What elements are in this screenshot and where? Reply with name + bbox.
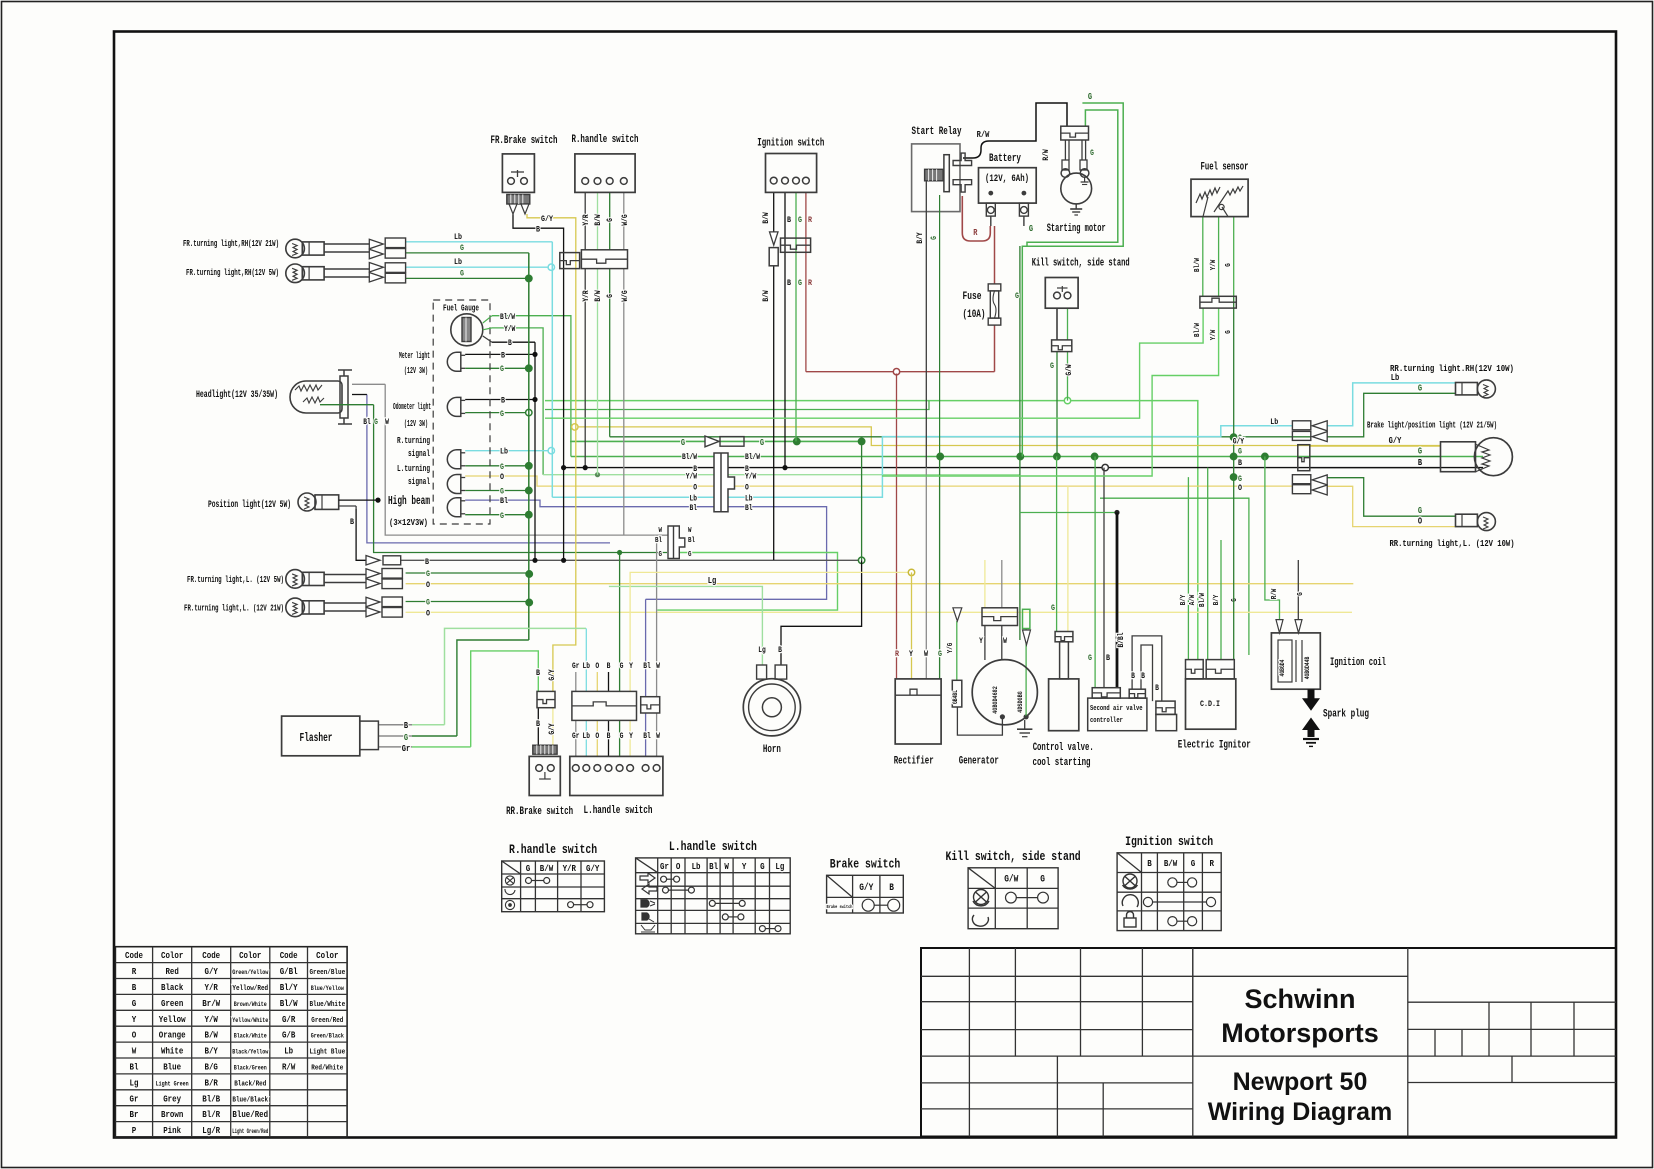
svg-text:signal: signal (408, 449, 430, 459)
wire B odometer light (465, 399, 535, 401)
svg-text:RR.turning light,L. (12V 10W): RR.turning light,L. (12V 10W) (1390, 538, 1515, 549)
wire G vertical cluster (528, 253, 530, 640)
svg-text:FR.turning light,RH(12V 5W): FR.turning light,RH(12V 5W) (186, 267, 279, 278)
svg-text:W/G: W/G (621, 290, 630, 301)
svg-text:Lb: Lb (1270, 417, 1278, 427)
svg-text:G: G (426, 569, 430, 579)
wire W rectifier (925, 468, 927, 679)
svg-text:R.handle switch: R.handle switch (572, 134, 639, 146)
wire R fuse to ignition switch (806, 371, 995, 373)
svg-text:C.D.I: C.D.I (1200, 699, 1220, 709)
svg-text:G: G (526, 863, 531, 874)
svg-text:Second air valve: Second air valve (1090, 705, 1143, 713)
svg-text:Green/Red: Green/Red (311, 1017, 343, 1025)
svg-text:4GBGD44B: 4GBGD44B (1304, 656, 1311, 679)
Kill switch side stand contact table (968, 868, 1058, 929)
svg-text:G: G (1231, 598, 1239, 602)
wire G control valve (1056, 457, 1058, 632)
svg-text:G: G (1297, 592, 1305, 596)
wire G/Y upper run (576, 427, 1441, 446)
svg-text:(10A): (10A) (963, 309, 986, 321)
wire G brake light (1310, 456, 1441, 458)
wire G mid run (545, 401, 929, 410)
wire Lb front turn RH5 (406, 266, 549, 268)
wire B fuel gauge (492, 341, 535, 343)
svg-text:Br: Br (130, 1109, 139, 1120)
meter cluster box (433, 300, 490, 524)
svg-text:G: G (1225, 330, 1233, 334)
svg-text:Bl: Bl (130, 1061, 139, 1072)
svg-text:Pink: Pink (163, 1125, 181, 1136)
wire B meter light (465, 353, 535, 355)
svg-text:G: G (1050, 361, 1054, 371)
svg-text:B/Y: B/Y (1180, 594, 1188, 605)
svg-text:FR.turning light,L. (12V 5W): FR.turning light,L. (12V 5W) (187, 574, 284, 585)
svg-text:G: G (606, 294, 615, 298)
svg-text:Lg: Lg (130, 1077, 139, 1088)
svg-text:FR.turning light,RH(12V 21W): FR.turning light,RH(12V 21W) (183, 238, 279, 249)
svg-text:Y/R: Y/R (205, 982, 219, 993)
svg-text:Yellow/White: Yellow/White (232, 1017, 268, 1024)
wire generator leads (956, 621, 958, 680)
svg-text:High beam: High beam (388, 494, 430, 508)
svg-text:B/Y: B/Y (205, 1046, 219, 1057)
svg-text:G: G (1088, 92, 1092, 102)
ground starting motor brush (1084, 177, 1086, 182)
svg-text:Bl: Bl (363, 418, 371, 427)
svg-text:Bl/Y: Bl/Y (280, 982, 298, 993)
svg-text:Bl: Bl (709, 861, 718, 872)
svg-text:Meter light: Meter light (399, 351, 430, 361)
svg-text:R: R (808, 278, 813, 288)
svg-text:G: G (659, 551, 663, 559)
svg-text:Blue: Blue (163, 1061, 181, 1072)
svg-text:B: B (350, 517, 354, 527)
connector rear L (1292, 475, 1310, 484)
wire Lb l-handle (585, 628, 587, 691)
wire G front turn RH5 (406, 277, 526, 279)
wire G to rear turn RH (610, 436, 1312, 438)
svg-text:G: G (460, 269, 464, 279)
svg-text:Color: Color (316, 950, 339, 961)
svg-text:O: O (676, 861, 681, 872)
svg-text:G: G (404, 733, 408, 743)
svg-text:(3×12V3W): (3×12V3W) (389, 518, 428, 528)
wire G meter light (465, 367, 526, 369)
svg-text:Kill switch, side stand: Kill switch, side stand (946, 850, 1081, 864)
svg-text:Blue/Yellow: Blue/Yellow (311, 985, 344, 992)
svg-text:Black/White: Black/White (234, 1033, 267, 1040)
wire G/Y r-handle 4 (623, 192, 625, 249)
svg-text:G: G (681, 438, 685, 448)
svg-text:Bl/R: Bl/R (202, 1109, 220, 1120)
svg-text:G: G (688, 551, 692, 559)
svg-text:G/W: G/W (1004, 874, 1018, 886)
svg-text:G: G (1051, 603, 1055, 613)
svg-text:G: G (1238, 447, 1242, 457)
svg-text:B: B (425, 557, 429, 567)
svg-text:B: B (1141, 672, 1145, 681)
wire G riser to B node (861, 441, 863, 560)
wire G/W kill switch (1067, 308, 1069, 340)
wire G with diode (570, 440, 860, 442)
svg-text:B: B (536, 668, 540, 678)
svg-text:G: G (620, 732, 624, 741)
wire G front turn L21 (406, 601, 530, 603)
wire CDI leads (1187, 477, 1189, 659)
svg-text:O: O (693, 484, 697, 493)
svg-text:B: B (778, 646, 782, 655)
svg-text:Lb: Lb (500, 447, 508, 457)
svg-text:B: B (404, 721, 409, 731)
wire R ignition (805, 192, 807, 371)
wire B/W ignition (773, 192, 775, 232)
svg-text:Y/W: Y/W (745, 473, 756, 482)
svg-text:Ignition switch: Ignition switch (1125, 835, 1213, 849)
svg-text:Green/Blue: Green/Blue (309, 969, 345, 977)
svg-text:A/W: A/W (1189, 594, 1197, 605)
wire G rectifier (939, 457, 941, 679)
svg-text:Lg: Lg (775, 861, 784, 872)
svg-text:controller: controller (1090, 717, 1123, 725)
svg-text:G: G (930, 236, 939, 240)
svg-text:B/W: B/W (594, 290, 603, 301)
svg-text:G: G (1029, 224, 1033, 234)
svg-text:Rectifier: Rectifier (894, 756, 934, 768)
svg-text:Lg: Lg (758, 646, 766, 655)
svg-text:Y/W: Y/W (504, 325, 515, 334)
svg-text:G/Y: G/Y (548, 669, 557, 680)
svg-text:Gr: Gr (660, 861, 669, 872)
wire G rear lights vertical (1233, 296, 1235, 659)
svg-text:Gr: Gr (402, 744, 411, 754)
svg-text:Fuel sensor: Fuel sensor (1201, 161, 1249, 173)
svg-text:Bl/W: Bl/W (1199, 593, 1207, 607)
wire G r-handle 3 (609, 192, 611, 249)
svg-text:RR.turning light.RH(12V 10W): RR.turning light.RH(12V 10W) (1390, 363, 1514, 374)
svg-text:Yellow: Yellow (159, 1014, 186, 1025)
svg-text:Color: Color (161, 950, 184, 961)
wire Bl/W fuel gauge (492, 316, 571, 457)
svg-text:(12V 3W): (12V 3W) (404, 419, 428, 429)
svg-text:G: G (606, 218, 615, 222)
svg-text:R/W: R/W (977, 130, 990, 140)
L.handle switch contact table (636, 858, 791, 934)
fuel gauge (451, 314, 483, 346)
svg-text:Code: Code (202, 950, 220, 961)
svg-text:W: W (659, 527, 663, 535)
svg-text:Y: Y (629, 732, 633, 741)
svg-text:Motorsports: Motorsports (1221, 1018, 1379, 1048)
svg-text:G: G (1225, 263, 1233, 267)
svg-text:Brake switch: Brake switch (827, 904, 853, 910)
connector FR brake / R handle (560, 253, 580, 269)
svg-text:B: B (607, 662, 611, 671)
wire B main black bus (564, 467, 1483, 469)
wire G l-handle (619, 553, 621, 692)
svg-text:B/Y: B/Y (1213, 594, 1221, 605)
svg-text:Position light(12V 5W): Position light(12V 5W) (208, 499, 291, 511)
wire G starting motor loop (1027, 110, 1118, 247)
svg-text:B/Bl: B/Bl (1117, 632, 1126, 647)
svg-text:Black/Yellow: Black/Yellow (232, 1049, 268, 1056)
svg-text:(12V 3W): (12V 3W) (404, 366, 428, 376)
wire O rear L (1327, 486, 1455, 526)
svg-text:Light Green/Red: Light Green/Red (232, 1128, 268, 1135)
svg-text:Code: Code (125, 950, 143, 961)
svg-text:Y/R: Y/R (582, 214, 591, 225)
svg-text:Lb: Lb (583, 732, 591, 741)
svg-text:R: R (808, 215, 813, 225)
svg-text:B/W: B/W (594, 214, 603, 225)
svg-text:Lb: Lb (692, 861, 701, 872)
svg-text:G: G (500, 409, 504, 419)
wire B fuel gauge vertical (534, 342, 536, 560)
svg-text:Y/R: Y/R (563, 863, 577, 874)
svg-text:R.turning: R.turning (397, 436, 430, 446)
svg-text:R: R (895, 649, 900, 659)
wire Bl high beam run (465, 500, 826, 599)
svg-text:B: B (889, 883, 894, 894)
svg-text:W: W (385, 418, 389, 427)
wire B/Bl second air valve thick (1020, 512, 1117, 514)
svg-text:G: G (500, 487, 504, 497)
wire B/W r-handle 2 (597, 192, 599, 249)
wire Lb vertical (551, 242, 553, 497)
wire G rear vertical 2 (1265, 457, 1280, 620)
svg-text:Newport 50: Newport 50 (1233, 1068, 1368, 1096)
svg-text:Blue/Black: Blue/Black (232, 1096, 268, 1104)
svg-text:Gr: Gr (130, 1093, 139, 1104)
svg-text:Bl/W: Bl/W (682, 453, 697, 462)
svg-text:4GBGD4: 4GBGD4 (1279, 659, 1286, 676)
svg-text:Yellow/Red: Yellow/Red (232, 985, 268, 993)
svg-text:FR.Brake switch: FR.Brake switch (491, 135, 558, 147)
wire O long orange bus (465, 476, 1292, 486)
wire Lb rear RH (1327, 383, 1455, 426)
wire G ignition (795, 192, 797, 441)
svg-text:Y: Y (132, 1014, 137, 1025)
wire W headlight run (385, 384, 667, 535)
svg-text:Y: Y (979, 637, 983, 646)
svg-text:B/Y: B/Y (916, 232, 925, 243)
svg-text:Gr: Gr (572, 662, 580, 671)
svg-text:Lb: Lb (745, 495, 753, 504)
svg-text:Bl/B: Bl/B (202, 1093, 220, 1104)
svg-text:G: G (620, 662, 624, 671)
svg-text:B: B (787, 278, 791, 288)
svg-text:G: G (460, 243, 464, 253)
svg-text:(12V, 6Ah): (12V, 6Ah) (985, 173, 1029, 185)
svg-text:P: P (132, 1125, 137, 1136)
wire colour code table (115, 947, 347, 1137)
svg-text:G: G (1090, 149, 1094, 158)
svg-text:Code: Code (280, 950, 298, 961)
wire G headlight run (374, 405, 667, 553)
svg-text:B: B (501, 351, 505, 361)
wire G odometer light (465, 412, 526, 414)
wire G main bright bus (545, 401, 1198, 660)
svg-text:Brown/White: Brown/White (234, 1001, 267, 1008)
svg-text:Gr: Gr (572, 732, 580, 741)
wire Y rectifier (630, 572, 911, 645)
svg-text:O: O (132, 1030, 137, 1041)
svg-text:Brake light/position light (12: Brake light/position light (12V 21/5W) (1367, 420, 1497, 431)
wire Bl headlight run (367, 395, 610, 543)
wire G L turning signal (465, 465, 526, 467)
connector headlamp harness (668, 526, 685, 559)
wire R/W start relay (963, 103, 1067, 158)
svg-text:4GBGD4682: 4GBGD4682 (992, 686, 999, 714)
svg-text:Y: Y (629, 662, 633, 671)
wire B l-handle (608, 672, 610, 691)
connector position light (366, 556, 380, 566)
svg-text:G: G (374, 418, 378, 427)
wire Lb meter R turning (465, 450, 549, 452)
wire G kill switch (1056, 308, 1058, 340)
svg-text:B/W: B/W (762, 290, 771, 301)
wire B ignition (784, 192, 786, 467)
svg-text:O: O (1418, 517, 1423, 527)
svg-text:O: O (595, 732, 599, 741)
svg-text:B: B (1147, 858, 1152, 869)
svg-text:Grey: Grey (163, 1093, 181, 1104)
svg-text:B: B (501, 396, 505, 406)
wire G/Y FR brake vertical (527, 214, 576, 691)
svg-text:Bl: Bl (500, 496, 508, 506)
svg-text:G/B: G/B (282, 1030, 296, 1041)
svg-text:Red: Red (165, 966, 179, 977)
svg-text:Bl: Bl (643, 662, 651, 671)
svg-text:Y: Y (742, 861, 747, 872)
svg-text:Y/W: Y/W (686, 473, 697, 482)
svg-text:B/G: B/G (205, 1061, 219, 1072)
svg-text:G: G (1015, 291, 1019, 301)
svg-text:L.handle switch: L.handle switch (584, 805, 653, 817)
svg-text:RR.Brake switch: RR.Brake switch (506, 806, 573, 818)
wire G second air valve (1094, 457, 1096, 688)
svg-text:B: B (508, 339, 512, 348)
svg-text:G: G (760, 861, 765, 872)
connector ignition switch (770, 232, 779, 245)
svg-text:Kill switch, side stand: Kill switch, side stand (1032, 258, 1130, 270)
svg-text:Br/W: Br/W (202, 998, 220, 1009)
wire Lb long light blue (552, 426, 1292, 497)
svg-text:Generator: Generator (959, 756, 999, 768)
ground generator (1024, 720, 1026, 729)
wire Lg flasher B (378, 724, 412, 726)
svg-text:O: O (595, 662, 599, 671)
svg-text:Bl/W: Bl/W (1194, 323, 1202, 337)
svg-text:G: G (1418, 447, 1422, 457)
svg-text:G: G (1191, 858, 1196, 869)
svg-text:B: B (1238, 458, 1242, 468)
svg-text:Light Green: Light Green (156, 1080, 189, 1087)
svg-text:Ignition coil: Ignition coil (1330, 657, 1386, 669)
wire Y control valve (1067, 486, 1069, 631)
svg-text:W: W (656, 662, 660, 671)
svg-text:W: W (1003, 637, 1007, 646)
svg-text:G/Bl: G/Bl (280, 966, 298, 977)
svg-text:B/R: B/R (205, 1077, 219, 1088)
wire RR brake B (537, 708, 539, 746)
svg-text:B/W: B/W (762, 212, 771, 223)
svg-text:White: White (161, 1046, 184, 1057)
svg-text:B: B (536, 719, 540, 729)
svg-text:Wiring Diagram: Wiring Diagram (1208, 1098, 1393, 1126)
svg-text:G/Y: G/Y (1233, 438, 1244, 447)
wire G flasher (378, 735, 412, 737)
svg-text:R: R (1210, 858, 1215, 869)
wire G L turning signal 2 (465, 490, 526, 492)
svg-text:W: W (132, 1046, 137, 1057)
svg-text:Starting motor: Starting motor (1047, 223, 1106, 235)
svg-text:L.turning: L.turning (397, 464, 430, 474)
svg-text:Red/White: Red/White (311, 1064, 343, 1072)
wire fuel sensor drops (1202, 217, 1204, 297)
svg-text:Blue/White: Blue/White (309, 1001, 345, 1009)
svg-text:Odometer light: Odometer light (393, 402, 431, 412)
svg-text:O: O (1238, 483, 1242, 493)
svg-text:B: B (132, 982, 137, 993)
svg-text:R.handle switch: R.handle switch (509, 843, 597, 857)
svg-text:G: G (1418, 506, 1422, 516)
svg-text:G/R: G/R (282, 1014, 296, 1025)
svg-text:4DSDGBG: 4DSDGBG (1017, 691, 1024, 712)
svg-text:R: R (132, 966, 137, 977)
wire W l-handle (656, 535, 658, 697)
svg-text:G: G (798, 215, 802, 225)
svg-text:Battery: Battery (989, 153, 1021, 165)
svg-text:B: B (1155, 684, 1159, 693)
svg-text:Flasher: Flasher (300, 731, 333, 745)
svg-text:Ignition switch: Ignition switch (757, 138, 824, 150)
title block grid (921, 948, 1616, 1137)
wire Lb front turn RH21 to junction (406, 241, 553, 243)
svg-text:G/W: G/W (1065, 364, 1074, 375)
svg-text:Bl/W: Bl/W (745, 453, 760, 462)
ground spark plug (1303, 738, 1319, 740)
wire R battery to fuse (994, 226, 996, 284)
wire B brake light (1310, 467, 1441, 469)
connector rear RH (1292, 421, 1310, 430)
svg-text:O: O (426, 580, 430, 590)
svg-text:G: G (132, 998, 137, 1009)
svg-text:Green: Green (161, 998, 184, 1009)
svg-text:W: W (924, 649, 929, 659)
wire G vertical fuse side (1019, 246, 1021, 640)
wire ignition coil leads (1297, 560, 1299, 620)
svg-text:Lg: Lg (708, 576, 717, 586)
svg-text:Y/R: Y/R (582, 290, 591, 301)
svg-text:G: G (500, 462, 504, 472)
wire B FR brake vertical (513, 214, 564, 468)
svg-text:Orange: Orange (159, 1030, 186, 1041)
svg-text:G/Y: G/Y (548, 723, 557, 734)
flasher (282, 716, 360, 756)
svg-text:Bl: Bl (745, 504, 753, 513)
svg-text:signal: signal (408, 477, 430, 487)
svg-text:R/W: R/W (1042, 149, 1051, 160)
svg-text:B: B (1131, 672, 1135, 681)
svg-text:Y/W: Y/W (1210, 259, 1218, 270)
svg-text:W: W (656, 732, 660, 741)
svg-text:G: G (798, 278, 802, 288)
wire B second air valve (1103, 468, 1105, 688)
svg-text:L.handle switch: L.handle switch (669, 840, 757, 854)
svg-text:Color: Color (239, 950, 262, 961)
svg-text:Bl: Bl (690, 504, 698, 513)
